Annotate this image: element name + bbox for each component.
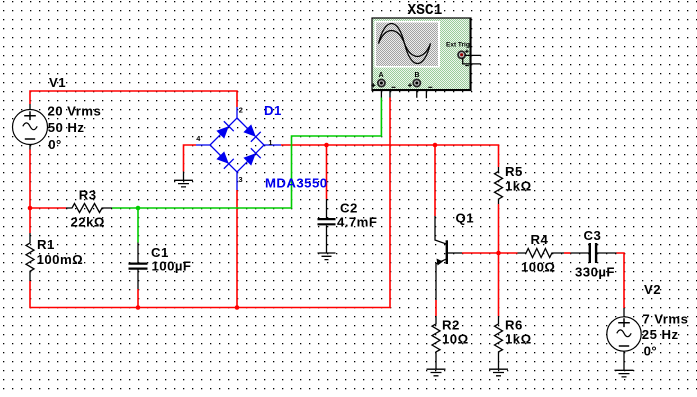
svg-text:10Ω: 10Ω xyxy=(442,331,469,346)
svg-text:Q1: Q1 xyxy=(456,211,475,226)
svg-text:R3: R3 xyxy=(79,187,97,202)
svg-text:D1: D1 xyxy=(264,103,282,118)
svg-text:1: 1 xyxy=(268,138,272,147)
svg-text:22kΩ: 22kΩ xyxy=(71,215,105,230)
svg-text:R2: R2 xyxy=(442,317,460,332)
svg-text:50 Hz: 50 Hz xyxy=(48,120,85,135)
svg-text:100mΩ: 100mΩ xyxy=(37,252,84,267)
svg-text:100µF: 100µF xyxy=(152,259,192,274)
svg-text:2: 2 xyxy=(239,105,243,114)
svg-text:C2: C2 xyxy=(340,201,358,216)
svg-text:V1: V1 xyxy=(49,75,66,90)
svg-text:R6: R6 xyxy=(505,317,523,332)
svg-text:XSC1: XSC1 xyxy=(408,3,443,19)
svg-text:20 Vrms: 20 Vrms xyxy=(48,104,102,119)
svg-text:C3: C3 xyxy=(584,228,602,243)
svg-text:330µF: 330µF xyxy=(575,265,615,280)
svg-text:B: B xyxy=(415,72,420,79)
svg-text:0°: 0° xyxy=(644,344,658,359)
svg-text:V2: V2 xyxy=(644,282,661,297)
svg-text:R5: R5 xyxy=(505,164,523,179)
svg-text:A: A xyxy=(379,72,384,79)
svg-text:3: 3 xyxy=(239,175,243,184)
svg-text:1kΩ: 1kΩ xyxy=(505,331,532,346)
svg-text:25 Hz: 25 Hz xyxy=(642,327,679,342)
svg-text:R4: R4 xyxy=(531,232,549,247)
svg-text:1kΩ: 1kΩ xyxy=(505,179,532,194)
svg-text:4.7mF: 4.7mF xyxy=(337,215,377,230)
svg-text:Ext Trig: Ext Trig xyxy=(446,42,470,49)
svg-text:MDA3550: MDA3550 xyxy=(265,175,328,190)
svg-text:R1: R1 xyxy=(37,237,55,252)
svg-text:0°: 0° xyxy=(48,137,62,152)
svg-text:100Ω: 100Ω xyxy=(521,260,555,275)
svg-text:7 Vrms: 7 Vrms xyxy=(642,312,688,327)
